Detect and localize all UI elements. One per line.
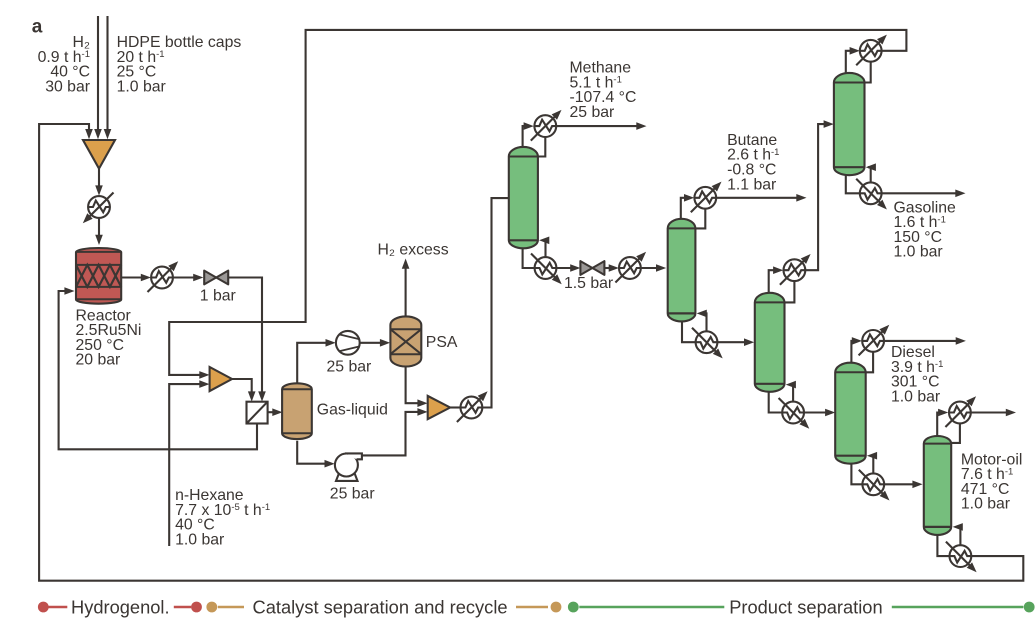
svg-text:20 bar: 20 bar [76,352,121,369]
svg-text:1.0 bar: 1.0 bar [894,244,943,261]
svg-text:Hydrogenol.: Hydrogenol. [71,596,170,617]
svg-text:25 bar: 25 bar [330,485,375,502]
svg-text:a: a [32,17,43,38]
svg-text:Product separation: Product separation [729,596,882,617]
svg-text:1 bar: 1 bar [200,287,236,304]
svg-text:30 bar: 30 bar [45,78,90,95]
svg-text:1.0 bar: 1.0 bar [117,78,166,95]
svg-text:1.5 bar: 1.5 bar [564,275,613,292]
svg-text:25 bar: 25 bar [327,358,372,375]
svg-text:Catalyst separation and recycl: Catalyst separation and recycle [253,596,508,617]
svg-text:1.0 bar: 1.0 bar [961,496,1010,513]
svg-text:H₂ excess: H₂ excess [378,242,449,259]
svg-text:1.1 bar: 1.1 bar [727,176,776,193]
svg-text:25 bar: 25 bar [570,104,615,121]
svg-text:1.0 bar: 1.0 bar [175,531,224,548]
svg-text:1.0 bar: 1.0 bar [891,388,940,405]
svg-text:Gas-liquid: Gas-liquid [317,401,388,418]
svg-text:PSA: PSA [426,334,458,351]
